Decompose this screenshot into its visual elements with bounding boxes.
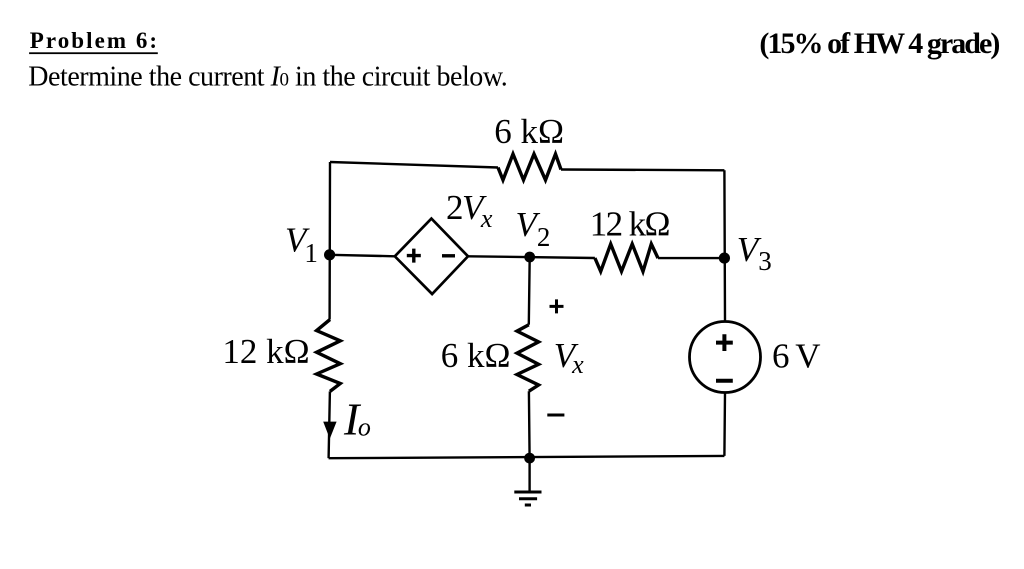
svg-text:Io: Io — [343, 393, 371, 444]
svg-text:6 kΩ: 6 kΩ — [441, 336, 511, 375]
svg-text:V2: V2 — [516, 205, 551, 252]
svg-text:(15% of HW 4 grade): (15% of HW 4 grade) — [759, 27, 999, 60]
svg-text:Determine the current I0 in th: Determine the current I0 in the circuit … — [28, 62, 507, 93]
svg-text:6 kΩ: 6 kΩ — [494, 112, 564, 151]
svg-text:12 kΩ: 12 kΩ — [222, 332, 309, 371]
svg-text:12 kΩ: 12 kΩ — [590, 205, 670, 244]
svg-text:6 V: 6 V — [772, 336, 820, 375]
svg-text:V3: V3 — [737, 230, 772, 276]
svg-text:Vx: Vx — [554, 336, 584, 379]
svg-text:Problem 6:: Problem 6: — [30, 28, 159, 53]
svg-text:2Vx: 2Vx — [446, 188, 493, 233]
svg-text:V1: V1 — [285, 221, 318, 268]
